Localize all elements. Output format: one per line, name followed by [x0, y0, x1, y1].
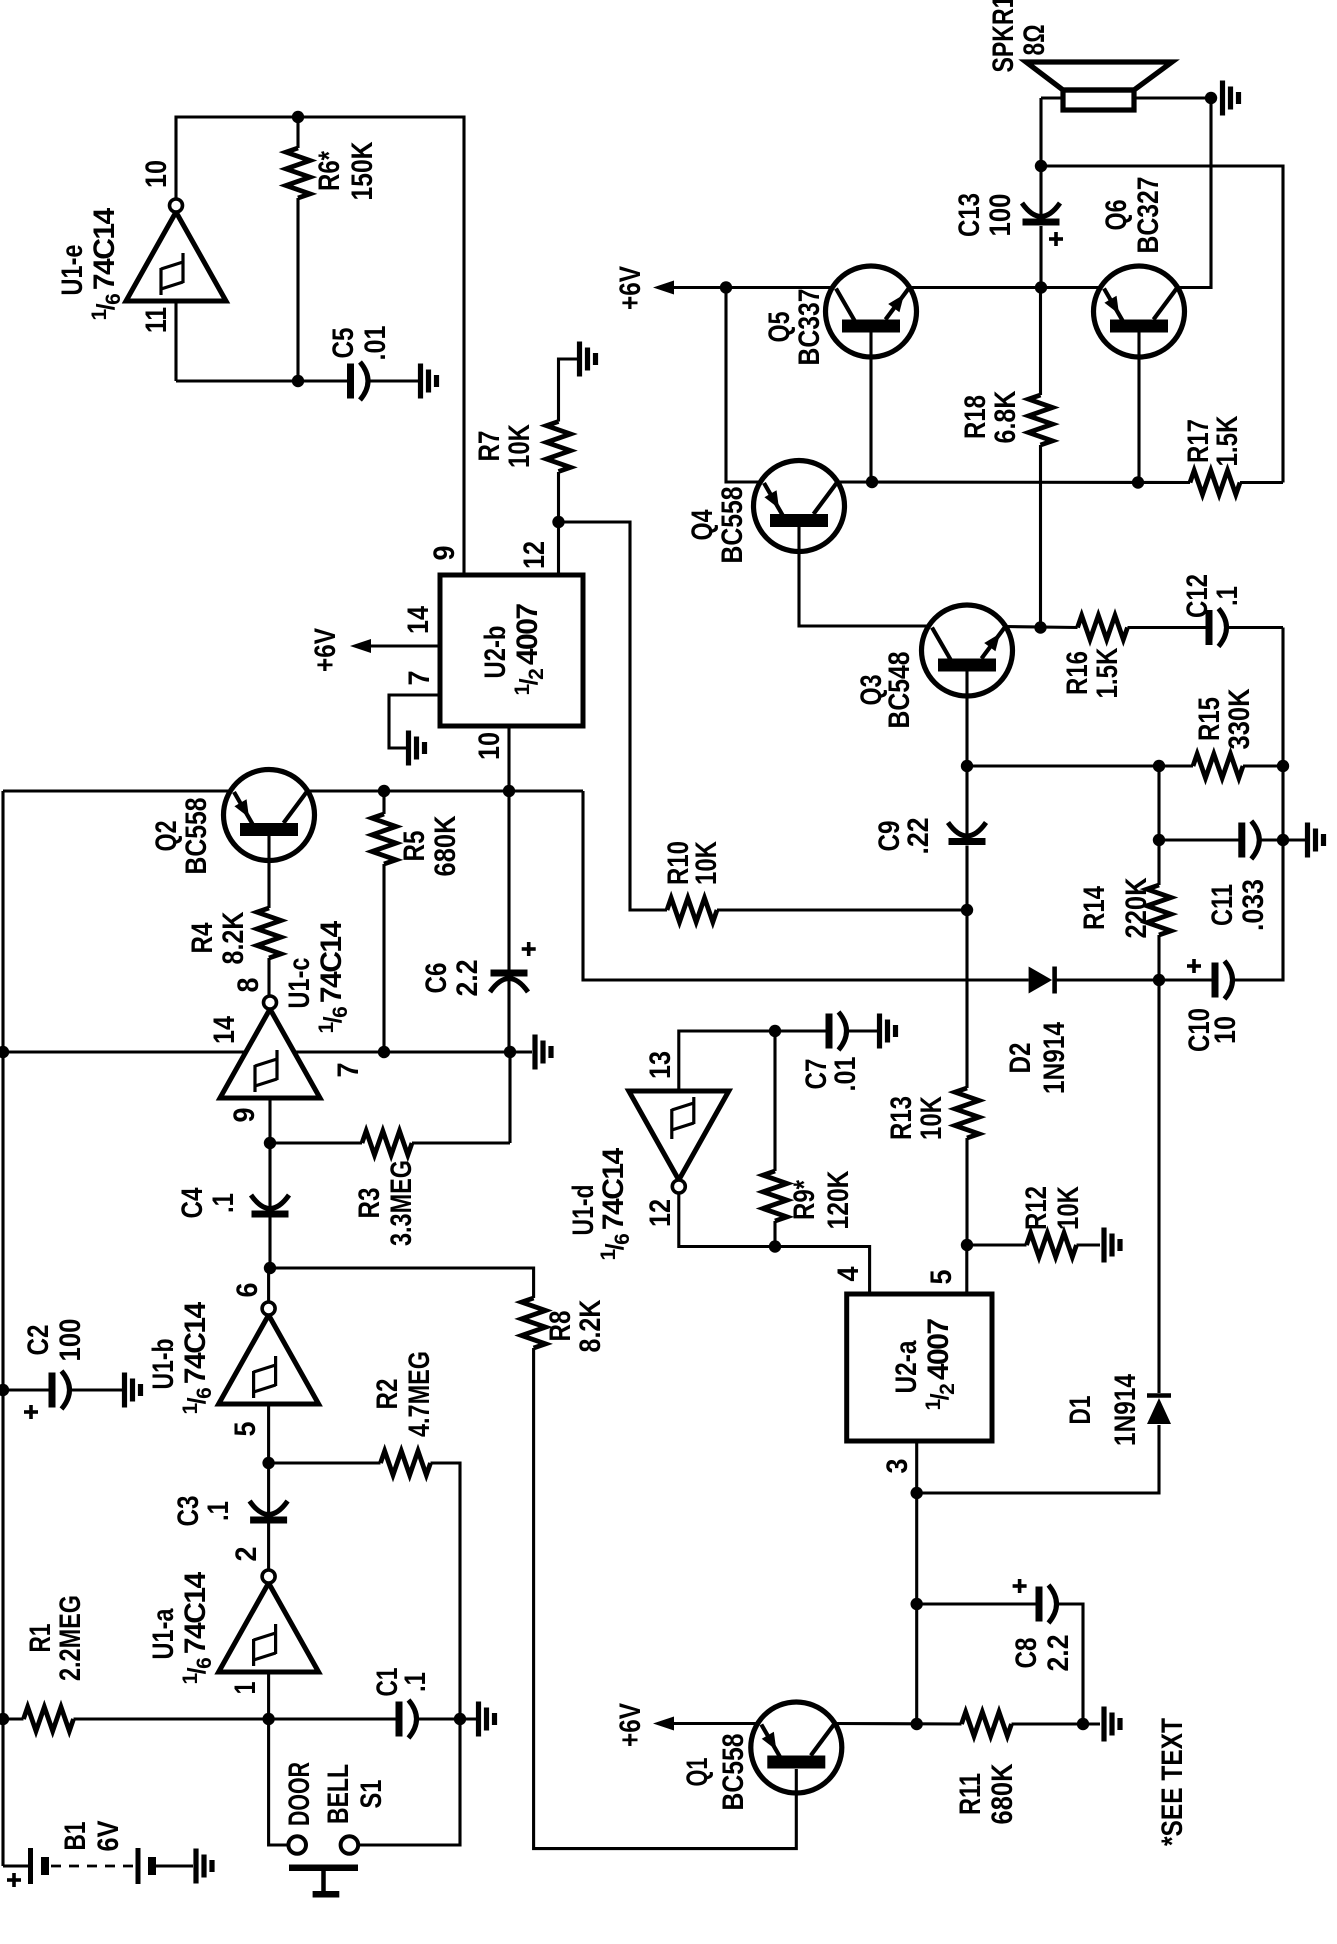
svg-text:U1-c: U1-c: [283, 958, 316, 1009]
svg-text:DOOR: DOOR: [283, 1762, 316, 1826]
svg-text:150K: 150K: [346, 141, 379, 200]
svg-text:8Ω: 8Ω: [1018, 25, 1051, 56]
svg-text:SPKR1: SPKR1: [987, 0, 1020, 73]
svg-text:U2-b: U2-b: [479, 626, 512, 679]
svg-text:1N914: 1N914: [1038, 1022, 1071, 1094]
svg-text:5: 5: [229, 1422, 262, 1437]
svg-text:1: 1: [229, 1682, 262, 1695]
svg-text:BC337: BC337: [793, 289, 826, 366]
svg-text:.1: .1: [207, 1193, 240, 1213]
svg-text:.01: .01: [829, 1057, 862, 1092]
svg-text:10K: 10K: [915, 1096, 948, 1140]
svg-text:.033: .033: [1237, 879, 1270, 931]
svg-text:7: 7: [403, 671, 436, 686]
svg-text:C2: C2: [22, 1325, 55, 1356]
svg-text:2.2: 2.2: [451, 960, 484, 997]
svg-text:S1: S1: [355, 1780, 388, 1809]
svg-text:10K: 10K: [690, 841, 723, 885]
svg-text:Q5: Q5: [763, 312, 796, 343]
svg-text:9: 9: [228, 1108, 261, 1123]
svg-text:11: 11: [140, 307, 173, 333]
svg-text:BC327: BC327: [1132, 177, 1165, 254]
svg-text:C8: C8: [1010, 1638, 1043, 1669]
svg-text:120K: 120K: [822, 1170, 855, 1229]
svg-text:C3: C3: [172, 1496, 205, 1527]
svg-text:100: 100: [984, 194, 1017, 237]
svg-text:BC558: BC558: [180, 798, 213, 875]
svg-text:U1-d: U1-d: [567, 1185, 600, 1236]
svg-text:4.7MEG: 4.7MEG: [403, 1351, 436, 1437]
svg-text:.1: .1: [1211, 586, 1244, 606]
svg-text:R4: R4: [186, 922, 219, 953]
svg-text:D2: D2: [1004, 1043, 1037, 1074]
svg-text:R2: R2: [371, 1379, 404, 1410]
svg-text:3.3MEG: 3.3MEG: [385, 1160, 418, 1246]
svg-text:2.2: 2.2: [1042, 1635, 1075, 1672]
svg-text:4: 4: [832, 1266, 865, 1281]
svg-text:D1: D1: [1064, 1396, 1097, 1425]
svg-text:R14: R14: [1078, 886, 1111, 930]
svg-text:6.8K: 6.8K: [989, 390, 1022, 443]
svg-text:10K: 10K: [1052, 1186, 1085, 1230]
svg-text:C11: C11: [1206, 884, 1239, 926]
svg-text:.1: .1: [399, 1672, 432, 1692]
svg-text:5: 5: [925, 1270, 958, 1285]
svg-text:330K: 330K: [1223, 688, 1256, 749]
svg-text:.01: .01: [359, 326, 392, 361]
svg-text:.1: .1: [202, 1501, 235, 1521]
svg-text:1.5K: 1.5K: [1091, 647, 1124, 698]
svg-text:B1: B1: [59, 1822, 92, 1851]
svg-text:C6: C6: [420, 963, 453, 994]
svg-text:10K: 10K: [503, 424, 536, 468]
svg-text:+6V: +6V: [614, 266, 647, 310]
svg-text:14: 14: [208, 1016, 241, 1044]
svg-text:C5: C5: [327, 328, 360, 359]
svg-text:1/2 4007: 1/2 4007: [922, 1319, 959, 1411]
svg-text:Q1: Q1: [681, 1758, 714, 1787]
svg-text:R8: R8: [544, 1311, 577, 1342]
svg-text:R9*: R9*: [788, 1180, 821, 1220]
svg-text:*SEE TEXT: *SEE TEXT: [1156, 1718, 1189, 1846]
svg-text:6: 6: [231, 1283, 264, 1298]
svg-text:13: 13: [644, 1051, 677, 1079]
svg-text:100: 100: [54, 1319, 87, 1362]
svg-text:R3: R3: [353, 1188, 386, 1219]
svg-text:BC558: BC558: [716, 487, 749, 564]
svg-text:3: 3: [881, 1459, 914, 1474]
svg-text:10: 10: [140, 160, 173, 188]
svg-text:+6V: +6V: [614, 1703, 647, 1747]
svg-text:R13: R13: [885, 1096, 918, 1140]
svg-text:1.5K: 1.5K: [1211, 415, 1244, 466]
svg-text:R12: R12: [1020, 1186, 1053, 1230]
svg-text:2: 2: [230, 1547, 263, 1562]
svg-text:680K: 680K: [429, 815, 462, 876]
svg-text:R7: R7: [473, 431, 506, 462]
svg-text:U1-a: U1-a: [147, 1608, 180, 1659]
svg-text:R15: R15: [1193, 697, 1226, 741]
svg-text:C12: C12: [1181, 574, 1214, 618]
svg-text:2.2MEG: 2.2MEG: [54, 1595, 87, 1681]
svg-text:U2-a: U2-a: [890, 1340, 923, 1393]
svg-text:+6V: +6V: [309, 628, 342, 672]
svg-text:12: 12: [518, 541, 551, 569]
svg-text:1N914: 1N914: [1109, 1374, 1142, 1446]
svg-text:R11: R11: [954, 1773, 987, 1815]
svg-text:14: 14: [402, 606, 435, 634]
svg-text:R1: R1: [24, 1624, 57, 1653]
svg-text:8.2K: 8.2K: [217, 911, 250, 964]
svg-text:1/2 4007: 1/2 4007: [511, 604, 548, 696]
svg-text:Q4: Q4: [686, 509, 719, 540]
svg-text:BC558: BC558: [717, 1734, 750, 1811]
svg-text:12: 12: [644, 1199, 677, 1227]
svg-text:220K: 220K: [1120, 877, 1153, 938]
svg-text:.22: .22: [902, 818, 935, 855]
svg-text:U1-e: U1-e: [56, 245, 89, 296]
svg-text:C4: C4: [176, 1187, 209, 1218]
svg-text:8.2K: 8.2K: [574, 1299, 607, 1352]
svg-text:R5: R5: [398, 831, 431, 862]
svg-text:C13: C13: [953, 193, 986, 237]
svg-text:10: 10: [1209, 1016, 1242, 1044]
svg-text:10: 10: [473, 732, 506, 760]
svg-text:BC548: BC548: [883, 652, 916, 729]
svg-text:Q2: Q2: [150, 821, 183, 852]
svg-text:R16: R16: [1061, 651, 1094, 695]
svg-text:R6*: R6*: [313, 151, 346, 191]
svg-text:6V: 6V: [92, 1821, 125, 1852]
svg-text:9: 9: [428, 546, 461, 561]
svg-text:U1-b: U1-b: [147, 1339, 180, 1390]
svg-text:Q6: Q6: [1100, 200, 1133, 231]
svg-text:8: 8: [232, 978, 265, 993]
svg-text:680K: 680K: [986, 1763, 1019, 1824]
svg-text:7: 7: [332, 1063, 365, 1078]
svg-text:R18: R18: [959, 395, 992, 439]
svg-text:BELL: BELL: [322, 1764, 355, 1824]
